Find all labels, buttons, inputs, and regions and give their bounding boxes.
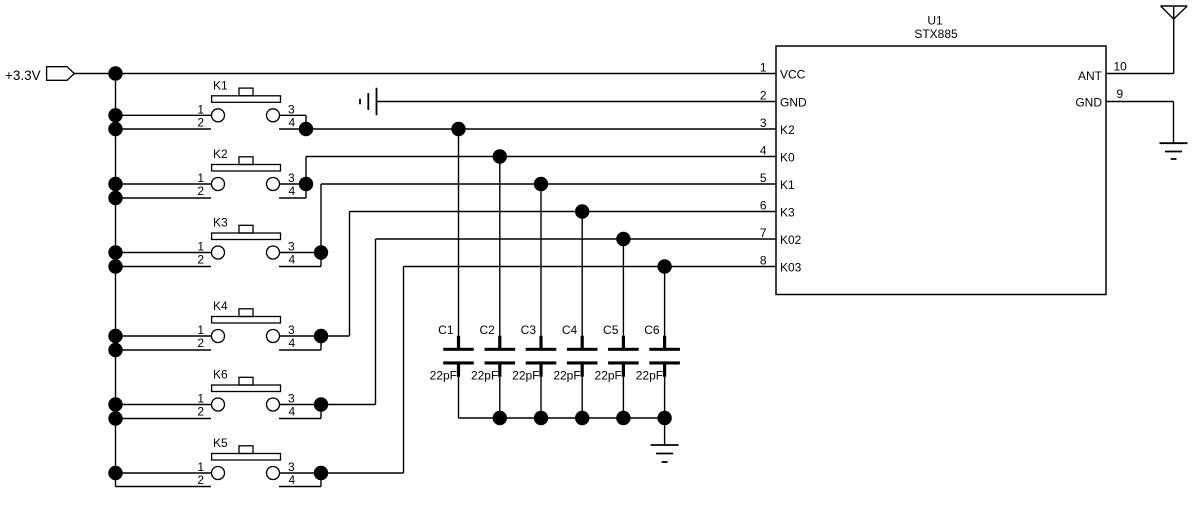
wire C6 bottom lead <box>664 377 666 418</box>
wire K4 pin 4 <box>279 349 321 351</box>
svg-text:22pF: 22pF <box>636 369 663 383</box>
power flag +3.3V <box>5 67 74 83</box>
node K3 output junction <box>314 245 328 259</box>
svg-text:C6: C6 <box>644 323 660 337</box>
wire C4 top lead <box>581 212 583 336</box>
node bus junction K4 pin 1 <box>108 329 122 343</box>
wire bus to K3 pin 2 <box>116 266 212 268</box>
svg-text:K2: K2 <box>780 123 795 137</box>
svg-text:1: 1 <box>197 102 204 116</box>
wire K2 pin 3 <box>280 183 306 185</box>
node ground rail junction C3 <box>534 411 548 425</box>
wire bus to K1 pin 1 <box>116 114 212 116</box>
wire bus to K4 pin 1 <box>116 335 212 337</box>
wire pin 9 down to ground <box>1173 102 1175 144</box>
node K4 output junction <box>314 329 328 343</box>
node C3 tap junction <box>534 177 548 191</box>
svg-text:K0: K0 <box>780 151 795 165</box>
svg-text:K2: K2 <box>213 147 228 161</box>
svg-text:K4: K4 <box>213 299 228 313</box>
node bus junction K4 pin 2 <box>108 343 122 357</box>
svg-text:1: 1 <box>760 61 767 75</box>
wire K0 net (IC pin 4) <box>306 156 776 158</box>
wire K6 pin 4 <box>279 418 321 420</box>
wire +3.3V vertical bus <box>115 74 117 487</box>
node bus junction K1 pin 2 <box>108 122 122 136</box>
capacitor C5 <box>608 336 639 377</box>
pushbutton K1 <box>212 78 281 122</box>
node ground rail junction C4 <box>575 411 589 425</box>
wire bus to K6 pin 1 <box>116 404 212 406</box>
node K1 output junction <box>299 122 313 136</box>
wire K6 output to riser <box>321 404 376 406</box>
wire bus to K5 pin 2 <box>116 486 212 488</box>
node bus junction K1 pin 1 <box>108 108 122 122</box>
wire K02 net (IC pin 7) <box>376 238 777 240</box>
wire K3 net (IC pin 6) <box>350 211 777 213</box>
svg-text:1: 1 <box>197 460 204 474</box>
svg-text:K5: K5 <box>213 436 228 450</box>
svg-text:4: 4 <box>760 144 767 158</box>
wire C5 bottom lead <box>622 377 624 418</box>
svg-text:4: 4 <box>289 336 296 350</box>
node ground rail junction C5 <box>616 411 630 425</box>
wire K4 pin 3 <box>280 335 321 337</box>
svg-text:K6: K6 <box>213 368 228 382</box>
wire C3 bottom lead <box>540 377 542 418</box>
svg-text:K3: K3 <box>213 216 228 230</box>
node bus junction K5 pin 1 <box>108 466 122 480</box>
node bus junction K2 pin 2 <box>108 191 122 205</box>
node C5 tap junction <box>616 232 630 246</box>
wire K5 pin 4 <box>279 486 321 488</box>
svg-text:4: 4 <box>289 115 296 129</box>
wire K4 output to riser <box>321 335 350 337</box>
svg-text:1: 1 <box>197 240 204 254</box>
wire K2 pin 4 <box>279 197 306 199</box>
wire +3.3V flag to VCC rail <box>74 73 776 75</box>
svg-text:2: 2 <box>760 89 767 103</box>
svg-text:5: 5 <box>760 171 767 185</box>
node K5 output junction <box>314 466 328 480</box>
svg-text:3: 3 <box>288 392 295 406</box>
wire K5 output to riser <box>321 472 404 474</box>
svg-text:6: 6 <box>760 199 767 213</box>
svg-text:2: 2 <box>197 336 204 350</box>
pushbutton K4 <box>212 299 281 343</box>
wire C5 top lead <box>622 239 624 336</box>
node bus junction K2 pin 1 <box>108 177 122 191</box>
wire C3 top lead <box>540 184 542 336</box>
node bus junction K6 pin 2 <box>108 411 122 425</box>
wire K3 riser up <box>320 184 322 253</box>
wire capacitor ground rail <box>459 417 665 419</box>
wire bus to K5 pin 1 <box>116 472 212 474</box>
wire K1 pin 3 down to output node <box>305 115 307 129</box>
node bus junction K3 pin 2 <box>108 259 122 273</box>
svg-text:3: 3 <box>288 102 295 116</box>
wire K2 pin 4 up to output node <box>305 184 307 198</box>
svg-text:STX885: STX885 <box>914 27 958 41</box>
wire K6 pin 4 up to output node <box>320 405 322 419</box>
wire rail to ground <box>664 418 666 445</box>
svg-text:K1: K1 <box>780 178 795 192</box>
wire K1 pin 4 <box>279 128 306 130</box>
svg-text:22pF: 22pF <box>430 369 457 383</box>
svg-text:22pF: 22pF <box>553 369 580 383</box>
node bus junction K3 pin 1 <box>108 245 122 259</box>
node K2 output junction <box>299 177 313 191</box>
svg-text:GND: GND <box>780 96 807 110</box>
wire K1 net (IC pin 5) <box>321 183 776 185</box>
svg-text:K1: K1 <box>213 78 228 92</box>
wire bus to K4 pin 2 <box>116 349 212 351</box>
svg-text:K02: K02 <box>780 233 802 247</box>
wire C1 bottom lead <box>458 377 460 418</box>
svg-text:7: 7 <box>760 226 767 240</box>
pushbutton K5 <box>212 436 281 480</box>
wire K3 pin 3 <box>280 252 321 254</box>
wire C6 top lead <box>664 267 666 336</box>
node K6 output junction <box>314 397 328 411</box>
svg-text:3: 3 <box>288 323 295 337</box>
wire bus to K2 pin 1 <box>116 183 212 185</box>
svg-text:2: 2 <box>197 184 204 198</box>
wire K3 pin 4 <box>279 266 321 268</box>
svg-text:VCC: VCC <box>780 68 806 82</box>
pushbutton K3 <box>212 216 281 260</box>
wire K6 pin 3 <box>280 404 321 406</box>
wire K5 pin 4 up to output node <box>320 473 322 487</box>
svg-text:1: 1 <box>197 171 204 185</box>
wire K5 riser up <box>403 267 405 474</box>
wire ground to IC pin 2 GND <box>377 101 777 103</box>
svg-text:GND: GND <box>1075 96 1102 110</box>
svg-text:4: 4 <box>289 405 296 419</box>
svg-text:3: 3 <box>288 171 295 185</box>
svg-text:8: 8 <box>760 254 767 268</box>
wire K2 riser up <box>305 157 307 185</box>
antenna <box>1161 6 1188 74</box>
svg-text:10: 10 <box>1114 60 1128 74</box>
ground (at IC pin 9) <box>1160 143 1188 159</box>
capacitor C3 <box>526 336 557 377</box>
capacitor C1 <box>443 336 474 377</box>
svg-text:9: 9 <box>1117 87 1124 101</box>
capacitor C6 <box>649 336 680 377</box>
node C4 tap junction <box>575 204 589 218</box>
pushbutton K2 <box>212 147 281 191</box>
wire bus to K6 pin 2 <box>116 418 212 420</box>
svg-text:ANT: ANT <box>1078 69 1103 83</box>
svg-text:+3.3V: +3.3V <box>5 68 41 83</box>
capacitor C2 <box>485 336 516 377</box>
wire K1 pin 3 <box>280 114 306 116</box>
wire C1 top lead <box>458 129 460 336</box>
op-amp U1 STX885 body <box>776 46 1106 295</box>
svg-text:C1: C1 <box>438 323 454 337</box>
wire K4 pin 4 up to output node <box>320 336 322 350</box>
svg-text:2: 2 <box>197 405 204 419</box>
node C6 tap junction <box>657 259 671 273</box>
svg-text:K3: K3 <box>780 206 795 220</box>
node ground rail junction C6 <box>657 411 671 425</box>
node C1 tap junction <box>451 122 465 136</box>
node C2 tap junction <box>493 149 507 163</box>
svg-text:2: 2 <box>197 253 204 267</box>
svg-text:C5: C5 <box>603 323 619 337</box>
wire K3 pin 4 up to output node <box>320 253 322 267</box>
ground (sideways, at IC pin 2) <box>360 88 377 116</box>
svg-text:1: 1 <box>197 323 204 337</box>
svg-text:3: 3 <box>288 240 295 254</box>
wire U1 pin 10 to antenna <box>1106 73 1174 75</box>
svg-text:22pF: 22pF <box>595 369 622 383</box>
wire K2 net (IC pin 3) <box>306 128 776 130</box>
svg-text:1: 1 <box>197 392 204 406</box>
node ground rail junction C2 <box>493 411 507 425</box>
wire bus to K1 pin 2 <box>116 128 212 130</box>
svg-text:22pF: 22pF <box>512 369 539 383</box>
wire C4 bottom lead <box>581 377 583 418</box>
svg-text:4: 4 <box>289 184 296 198</box>
wire U1 pin 9 to ground <box>1106 101 1174 103</box>
wire bus to K2 pin 2 <box>116 197 212 199</box>
svg-text:C2: C2 <box>479 323 495 337</box>
capacitor C4 <box>567 336 598 377</box>
svg-text:4: 4 <box>289 253 296 267</box>
ground (below capacitors) <box>651 445 679 462</box>
wire K6 riser up <box>375 239 377 405</box>
wire K4 riser up <box>349 212 351 337</box>
svg-text:22pF: 22pF <box>471 369 498 383</box>
node +3.3V junction <box>108 66 122 80</box>
svg-text:K03: K03 <box>780 261 802 275</box>
svg-text:C4: C4 <box>562 323 578 337</box>
svg-text:2: 2 <box>197 473 204 487</box>
svg-text:4: 4 <box>289 473 296 487</box>
node bus junction K6 pin 1 <box>108 397 122 411</box>
svg-text:C3: C3 <box>521 323 537 337</box>
wire bus to K3 pin 1 <box>116 252 212 254</box>
wire K03 net (IC pin 8) <box>404 266 777 268</box>
svg-text:2: 2 <box>197 115 204 129</box>
svg-text:3: 3 <box>288 460 295 474</box>
wire C2 top lead <box>499 157 501 336</box>
wire K5 pin 3 <box>280 472 321 474</box>
svg-text:U1: U1 <box>927 13 943 27</box>
pushbutton K6 <box>212 368 281 412</box>
wire C2 bottom lead <box>499 377 501 418</box>
svg-text:3: 3 <box>760 116 767 130</box>
